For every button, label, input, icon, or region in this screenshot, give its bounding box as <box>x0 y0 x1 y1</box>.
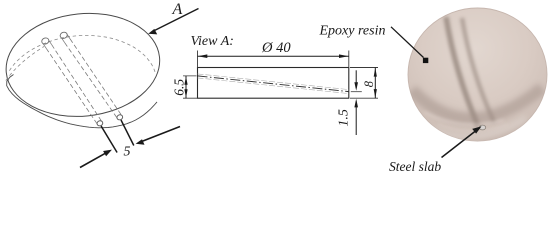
8 extension lines <box>350 68 378 99</box>
8 dimension line <box>374 68 376 99</box>
view arrow A <box>154 9 199 32</box>
steel slab end dot <box>479 125 485 130</box>
slab centre line <box>198 76 349 92</box>
epoxy pointer square <box>423 58 428 63</box>
svg-text:8: 8 <box>362 80 376 87</box>
leader line from slab 2 <box>121 120 134 146</box>
embedded slab streak 2 <box>462 18 494 122</box>
light veins <box>424 112 504 125</box>
svg-text:A: A <box>172 1 183 18</box>
slab 1 edges <box>43 44 46 49</box>
svg-text:Ø 40: Ø 40 <box>261 40 291 56</box>
disk bottom front edge <box>7 75 157 128</box>
epoxy disk photo <box>408 8 547 141</box>
slab 1 top end loop <box>41 37 50 45</box>
svg-text:View A:: View A: <box>191 34 234 49</box>
slab section lower outline <box>198 78 349 94</box>
slab 2 edges <box>62 38 65 43</box>
svg-text:5: 5 <box>124 145 131 160</box>
diameter extension lines <box>198 51 349 68</box>
disk top face outline <box>1 6 165 123</box>
hidden edge dashed arc <box>9 35 155 72</box>
disk section rectangle <box>198 68 349 99</box>
epoxy pointer line <box>391 27 424 58</box>
slab section upper outline <box>198 74 349 90</box>
diameter dimension line <box>198 55 349 57</box>
steel slab arrow <box>442 131 476 158</box>
leader line from slab 1 <box>101 126 117 153</box>
svg-text:1.5: 1.5 <box>337 109 352 127</box>
slab end extension tick <box>351 91 362 93</box>
bottom rim shading <box>412 88 542 119</box>
slab 2 top end loop <box>59 31 68 39</box>
1.5 dimension arrow <box>355 102 357 136</box>
embedded slab streak 1 <box>446 17 478 126</box>
slab 2 bottom end loop <box>116 114 123 121</box>
slab end pointer arrow <box>355 70 357 88</box>
svg-text:Epoxy resin: Epoxy resin <box>319 24 386 39</box>
slab 1 bottom end loop <box>96 120 103 127</box>
dimension 5 right arrow <box>141 127 180 142</box>
svg-text:6.5: 6.5 <box>171 79 186 96</box>
hidden edge dashed arc lower left <box>6 47 44 81</box>
6.5 extension tick <box>183 76 198 98</box>
dimension 5 left arrow <box>80 152 108 167</box>
6.5 dimension line <box>185 76 187 98</box>
svg-text:Steel slab: Steel slab <box>389 159 441 174</box>
